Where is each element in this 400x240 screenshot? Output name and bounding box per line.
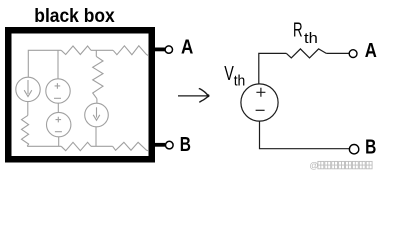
wire: R4 to I2 top xyxy=(96,99,98,104)
terminal B (right circuit) xyxy=(349,145,358,154)
svg-text:B: B xyxy=(180,133,191,156)
wire: I2 bottom to bottom rail xyxy=(95,127,97,147)
voltage source Vth xyxy=(241,84,278,121)
resistor R2 (top-right horizontal) xyxy=(113,46,149,56)
svg-text:black box: black box xyxy=(34,5,115,27)
arrow (implication) xyxy=(178,89,208,103)
wire: I1 bottom to R3 xyxy=(27,102,29,116)
terminal stub A (left box) xyxy=(152,48,166,52)
svg-text:A: A xyxy=(181,36,193,59)
wire: middle resistor top stub xyxy=(95,50,97,56)
voltage source V1 xyxy=(46,79,70,103)
terminal A (left box) xyxy=(165,46,172,53)
svg-text:A: A xyxy=(365,39,377,62)
resistor R1 (top-left horizontal) xyxy=(61,46,91,55)
wire: Vth bottom to terminal B xyxy=(260,121,350,149)
resistor R4 (middle vertical) xyxy=(93,56,103,98)
resistor Rth xyxy=(286,49,326,58)
wire: V1 bottom to V2 top xyxy=(57,103,59,112)
wire: bottom rail left segment xyxy=(27,145,61,147)
wire: V1 top to top rail xyxy=(57,50,59,79)
wire: V2 bottom to bottom rail xyxy=(58,137,60,146)
resistor R5 (bottom-left horizontal) xyxy=(61,142,91,150)
wire: Rth to terminal A xyxy=(326,52,349,54)
wire: bottom rail middle segment xyxy=(91,145,113,147)
wire: top rail left segment (I1 top up, across to V1 junction) xyxy=(28,50,61,77)
terminal stub B (left box) xyxy=(152,143,166,147)
current source I2 xyxy=(85,103,109,127)
terminal A (right circuit) xyxy=(349,50,357,58)
terminal B (left box) xyxy=(166,141,174,149)
svg-text:@: @ xyxy=(310,161,319,171)
resistor R6 (bottom-right horizontal) xyxy=(113,142,149,151)
wire: top rail middle segment (junction to R2) xyxy=(91,49,113,51)
svg-text:B: B xyxy=(365,136,376,159)
current source I1 xyxy=(16,77,40,101)
resistor R3 (left vertical) xyxy=(22,115,29,146)
wire: Vth top to Rth xyxy=(259,53,287,84)
black box enclosure xyxy=(8,30,152,159)
voltage source V2 xyxy=(47,112,71,136)
